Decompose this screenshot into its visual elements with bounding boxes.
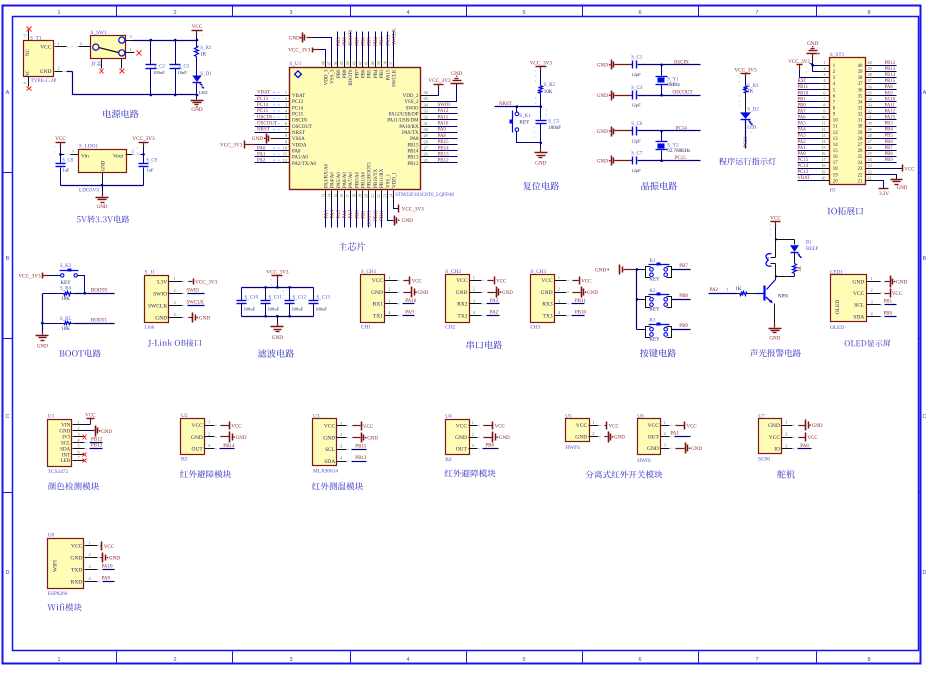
svg-text:1: 1	[174, 276, 176, 281]
svg-text:GND: GND	[40, 69, 52, 75]
svg-text:K3: K3	[649, 319, 656, 324]
svg-text:C: C	[6, 414, 10, 420]
svg-text:GND: GND	[252, 136, 263, 142]
svg-text:10uF: 10uF	[177, 70, 187, 75]
svg-text:PB12: PB12	[438, 159, 450, 164]
svg-text:PB14: PB14	[885, 73, 896, 78]
svg-text:16: 16	[833, 155, 838, 160]
svg-text:3: 3	[78, 431, 80, 436]
svg-text:BOOT1: BOOT1	[368, 210, 373, 227]
svg-text:VCC: VCC	[853, 291, 865, 297]
svg-text:3: 3	[473, 298, 475, 303]
svg-text:43: 43	[352, 61, 356, 65]
svg-text:S_R5: S_R5	[60, 317, 72, 322]
svg-text:3: 3	[289, 657, 292, 663]
svg-text:S_R2: S_R2	[544, 83, 556, 88]
svg-text:PB4: PB4	[885, 128, 894, 133]
svg-text:SWCLK: SWCLK	[392, 28, 397, 46]
svg-text:PA11/USB/DM: PA11/USB/DM	[387, 119, 419, 124]
svg-text:22: 22	[377, 194, 381, 198]
svg-text:1: 1	[871, 276, 873, 281]
svg-text:PA10: PA10	[438, 122, 449, 127]
svg-text:VCC: VCC	[372, 278, 384, 284]
svg-text:37: 37	[868, 78, 872, 83]
svg-text:S_C5: S_C5	[548, 119, 560, 124]
svg-text:GND: GND	[70, 555, 82, 561]
svg-text:VCC: VCC	[85, 413, 96, 418]
svg-text:7: 7	[755, 657, 758, 663]
svg-text:7: 7	[823, 96, 825, 101]
svg-text:2: 2	[173, 10, 176, 16]
svg-text:1K: 1K	[735, 287, 742, 292]
svg-text:3: 3	[871, 299, 873, 304]
svg-text:GND: GND	[535, 161, 546, 167]
svg-text:17: 17	[821, 157, 825, 162]
svg-text:PB11: PB11	[798, 85, 809, 90]
svg-text:1: 1	[57, 10, 60, 16]
svg-text:GND: GND	[597, 129, 608, 135]
svg-text:SWCLK: SWCLK	[186, 301, 204, 306]
svg-text:20: 20	[365, 194, 369, 198]
svg-text:2: 2	[592, 431, 594, 436]
svg-text:8: 8	[823, 102, 825, 107]
svg-text:S_C4: S_C4	[631, 86, 643, 91]
svg-text:PA6/A0: PA6/A0	[343, 172, 348, 188]
svg-text:29: 29	[868, 127, 872, 132]
svg-text:13: 13	[821, 133, 825, 138]
svg-text:PA4/A0: PA4/A0	[331, 172, 336, 188]
svg-text:NRST: NRST	[292, 131, 305, 136]
svg-text:PC14: PC14	[676, 127, 688, 132]
svg-text:BOOT0: BOOT0	[349, 69, 354, 86]
svg-text:1: 1	[592, 420, 594, 425]
svg-text:PB5: PB5	[885, 134, 894, 139]
svg-text:S_CH3: S_CH3	[530, 269, 546, 275]
svg-text:PB8: PB8	[885, 152, 894, 157]
svg-text:GND: GND	[807, 41, 818, 47]
svg-text:PB6: PB6	[362, 37, 367, 46]
svg-text:PA1: PA1	[257, 152, 266, 157]
svg-text:STM32F103C8T6_LQFP48: STM32F103C8T6_LQFP48	[395, 192, 454, 198]
svg-text:PA12: PA12	[885, 109, 896, 114]
svg-text:11: 11	[821, 121, 825, 126]
svg-text:1: 1	[57, 657, 60, 663]
svg-text:S_R4: S_R4	[60, 287, 72, 292]
svg-text:20: 20	[821, 175, 825, 180]
svg-text:VCC_3V3: VCC_3V3	[530, 61, 553, 67]
svg-text:PA5: PA5	[337, 210, 342, 219]
svg-text:2: 2	[208, 431, 210, 436]
svg-text:10K: 10K	[544, 90, 553, 95]
svg-text:PB4: PB4	[374, 37, 379, 46]
svg-text:CH2: CH2	[445, 325, 455, 331]
svg-text:GND: GND	[371, 290, 383, 296]
svg-text:26: 26	[858, 149, 863, 154]
svg-text:S_D1: S_D1	[200, 72, 212, 77]
svg-text:18: 18	[833, 167, 838, 172]
svg-text:OUT: OUT	[191, 447, 203, 453]
svg-text:PB9: PB9	[337, 69, 342, 78]
svg-text:40: 40	[371, 61, 375, 65]
svg-text:15: 15	[821, 145, 825, 150]
svg-text:BEEP: BEEP	[806, 247, 818, 252]
svg-text:TX2: TX2	[457, 313, 467, 319]
svg-text:OUT: OUT	[648, 435, 660, 441]
svg-text:8MHz: 8MHz	[667, 83, 681, 88]
svg-text:23: 23	[383, 194, 387, 198]
svg-text:PB1/A0: PB1/A0	[362, 171, 367, 188]
svg-text:PB3: PB3	[380, 37, 385, 46]
svg-text:OSCIN: OSCIN	[257, 115, 272, 120]
svg-text:RST: RST	[798, 79, 807, 84]
svg-text:2: 2	[558, 287, 560, 292]
svg-text:PB4: PB4	[374, 69, 379, 78]
svg-text:0: 0	[23, 34, 28, 36]
svg-text:C: C	[923, 414, 926, 420]
svg-text:PB14: PB14	[438, 146, 450, 151]
svg-text:46: 46	[334, 61, 338, 65]
svg-text:37: 37	[858, 82, 863, 87]
svg-text:18: 18	[352, 194, 356, 198]
svg-text:GND: GND	[597, 159, 608, 165]
svg-text:VBAT: VBAT	[257, 91, 270, 96]
svg-text:SWIO: SWIO	[406, 106, 419, 111]
svg-text:S_C10: S_C10	[245, 295, 259, 300]
svg-text:SG90: SG90	[758, 457, 770, 463]
svg-text:S_U1: S_U1	[289, 61, 301, 67]
svg-text:3: 3	[664, 443, 666, 448]
svg-text:2: 2	[173, 657, 176, 663]
svg-text:GND: GND	[37, 343, 48, 349]
svg-text:VCC_3V3: VCC_3V3	[402, 207, 425, 213]
svg-text:1K: 1K	[200, 53, 207, 58]
svg-text:1: 1	[388, 275, 390, 280]
svg-text:PC15: PC15	[257, 109, 269, 114]
svg-text:13: 13	[833, 137, 838, 142]
svg-text:VBAT: VBAT	[292, 94, 305, 99]
svg-text:5: 5	[823, 84, 825, 89]
svg-text:PC14: PC14	[257, 103, 269, 108]
svg-text:U5: U5	[565, 413, 572, 419]
svg-text:NRST: NRST	[499, 102, 512, 107]
svg-text:SWIO: SWIO	[186, 289, 199, 294]
svg-text:GND: GND	[191, 435, 203, 441]
svg-text:PB14: PB14	[407, 150, 419, 155]
svg-text:PA1: PA1	[670, 432, 679, 437]
svg-text:PA8: PA8	[800, 444, 809, 449]
svg-text:38: 38	[858, 76, 863, 81]
svg-text:OSCOUT: OSCOUT	[292, 125, 312, 130]
svg-text:9: 9	[823, 109, 825, 114]
svg-text:PA5/A0: PA5/A0	[337, 172, 342, 188]
svg-text:S_K1: S_K1	[519, 114, 531, 119]
svg-text:4: 4	[406, 657, 409, 663]
svg-text:VCC: VCC	[104, 544, 115, 550]
svg-text:36: 36	[858, 88, 863, 93]
svg-text:Vout: Vout	[113, 153, 124, 159]
svg-text:PA2: PA2	[798, 140, 807, 145]
svg-text:GND: GND	[597, 63, 608, 69]
svg-text:39: 39	[377, 61, 381, 65]
svg-text:PB10: PB10	[575, 311, 587, 316]
svg-text:12: 12	[821, 127, 825, 132]
svg-text:GND: GND	[272, 335, 283, 341]
svg-text:15: 15	[334, 194, 338, 198]
svg-text:37: 37	[389, 61, 393, 65]
svg-text:Vin: Vin	[81, 153, 89, 159]
svg-text:10K: 10K	[61, 327, 70, 332]
svg-text:TYPE-C-2P: TYPE-C-2P	[31, 78, 57, 84]
svg-text:3: 3	[289, 10, 292, 16]
svg-text:SWCLK: SWCLK	[148, 303, 167, 309]
svg-text:VSS_3: VSS_3	[331, 69, 336, 84]
svg-text:LED: LED	[60, 459, 70, 464]
svg-text:PA4: PA4	[331, 210, 336, 219]
svg-text:GND: GND	[769, 337, 780, 342]
svg-text:9: 9	[285, 139, 287, 144]
svg-text:PB8: PB8	[679, 294, 688, 299]
svg-text:PA15: PA15	[885, 116, 896, 121]
svg-text:VCC: VCC	[904, 167, 915, 172]
svg-text:S_R1: S_R1	[200, 46, 212, 51]
svg-text:U6: U6	[637, 413, 644, 419]
svg-text:26: 26	[868, 145, 872, 150]
svg-text:6: 6	[78, 449, 80, 454]
svg-text:GND: GND	[59, 430, 70, 435]
svg-text:PA9: PA9	[102, 577, 111, 582]
svg-text:PC13: PC13	[798, 170, 809, 175]
svg-text:SCL: SCL	[325, 447, 336, 453]
svg-text:3: 3	[726, 287, 728, 292]
svg-text:GND: GND	[768, 423, 780, 429]
svg-text:2: 2	[78, 426, 80, 431]
svg-text:VCC_3V3: VCC_3V3	[18, 274, 41, 280]
svg-text:PA10: PA10	[405, 299, 416, 304]
svg-text:27: 27	[858, 143, 863, 148]
svg-text:1: 1	[472, 420, 474, 425]
svg-text:LDO3V3: LDO3V3	[79, 188, 99, 194]
svg-text:3: 3	[823, 72, 825, 77]
svg-text:PA11: PA11	[885, 103, 896, 108]
svg-text:100uF: 100uF	[243, 307, 255, 312]
svg-text:3: 3	[174, 300, 176, 305]
svg-text:22: 22	[868, 169, 872, 174]
svg-text:VCC: VCC	[581, 279, 592, 284]
svg-text:GND: GND	[402, 218, 413, 224]
svg-text:PC13: PC13	[744, 136, 749, 148]
svg-text:OLED: OLED	[835, 300, 841, 315]
svg-text:PA0: PA0	[292, 150, 301, 155]
svg-text:3.3V: 3.3V	[156, 279, 167, 285]
svg-text:NC: NC	[26, 49, 31, 56]
svg-text:13: 13	[321, 194, 325, 198]
svg-text:PA2: PA2	[710, 288, 719, 293]
svg-text:47: 47	[328, 61, 332, 65]
svg-text:27: 27	[868, 139, 872, 144]
svg-text:PA2: PA2	[257, 159, 266, 164]
svg-text:PB15: PB15	[355, 444, 367, 449]
svg-text:S_Y1: S_Y1	[667, 78, 679, 83]
svg-text:8: 8	[285, 133, 287, 138]
svg-text:12pF: 12pF	[631, 168, 641, 173]
svg-text:PB5: PB5	[368, 37, 373, 46]
svg-text:PB9: PB9	[885, 158, 894, 163]
svg-text:24: 24	[389, 194, 393, 198]
svg-text:TX1: TX1	[373, 313, 383, 319]
svg-text:1: 1	[664, 420, 666, 425]
svg-text:OUT: OUT	[456, 447, 468, 453]
svg-text:32: 32	[858, 113, 863, 118]
svg-text:KEY: KEY	[649, 308, 660, 313]
svg-text:PB8: PB8	[343, 69, 348, 78]
svg-text:25: 25	[868, 151, 872, 156]
svg-text:39: 39	[858, 70, 863, 75]
svg-text:B: B	[6, 256, 10, 262]
svg-text:14: 14	[328, 194, 332, 198]
svg-text:VCC: VCC	[496, 279, 507, 284]
svg-text:BOOT1: BOOT1	[91, 318, 108, 323]
svg-text:33: 33	[858, 106, 863, 111]
svg-text:S_Y2: S_Y2	[667, 143, 679, 148]
svg-text:PB13: PB13	[91, 444, 103, 449]
svg-text:PB15: PB15	[885, 79, 896, 84]
svg-text:BOOT0: BOOT0	[349, 29, 354, 46]
svg-text:U8: U8	[48, 532, 55, 538]
svg-text:PB11/RX: PB11/RX	[380, 168, 385, 188]
svg-text:8: 8	[867, 10, 870, 16]
svg-text:1: 1	[89, 540, 91, 545]
svg-text:33: 33	[868, 102, 872, 107]
svg-text:VDD_3: VDD_3	[324, 69, 329, 85]
svg-text:VCC_3V3: VCC_3V3	[220, 142, 243, 148]
svg-text:44: 44	[346, 61, 350, 65]
svg-text:2: 2	[871, 288, 873, 293]
svg-text:S_C8: S_C8	[62, 158, 73, 163]
svg-text:15: 15	[833, 149, 838, 154]
svg-text:PB15: PB15	[438, 140, 450, 145]
svg-text:D: D	[923, 570, 926, 576]
svg-text:VCC: VCC	[609, 424, 620, 429]
svg-text:BOOT0: BOOT0	[91, 288, 108, 293]
svg-text:2: 2	[664, 431, 666, 436]
svg-text:PA8: PA8	[410, 137, 419, 142]
svg-text:PB13: PB13	[438, 152, 450, 157]
svg-text:PC13: PC13	[257, 97, 269, 102]
svg-text:PA10: PA10	[885, 97, 896, 102]
svg-text:PA7/A0: PA7/A0	[349, 172, 354, 188]
svg-text:VCC_3V3: VCC_3V3	[288, 48, 311, 54]
svg-text:3: 3	[558, 298, 560, 303]
svg-text:HWIS: HWIS	[637, 458, 651, 464]
svg-text:S_C6: S_C6	[631, 122, 643, 127]
svg-text:PB9: PB9	[679, 324, 688, 329]
svg-text:GND: GND	[896, 279, 907, 285]
svg-text:PA7: PA7	[798, 109, 807, 114]
svg-text:10K: 10K	[61, 297, 70, 302]
svg-text:OSCIN: OSCIN	[292, 119, 307, 124]
svg-text:VSSA: VSSA	[292, 137, 305, 142]
svg-text:VCC_3V3: VCC_3V3	[734, 68, 757, 74]
svg-text:GND: GND	[647, 446, 659, 452]
svg-text:PB9: PB9	[337, 37, 342, 46]
svg-text:PA15: PA15	[386, 34, 391, 45]
svg-text:21: 21	[868, 175, 872, 180]
svg-text:VCC: VCC	[770, 215, 781, 221]
svg-text:PB0: PB0	[355, 210, 360, 219]
svg-text:38: 38	[868, 72, 872, 77]
svg-text:3: 3	[130, 34, 132, 39]
svg-text:GND: GND	[102, 160, 107, 171]
svg-text:3: 3	[388, 298, 390, 303]
svg-text:KEY: KEY	[519, 120, 530, 125]
svg-text:1: 1	[208, 420, 210, 425]
svg-text:18: 18	[821, 163, 825, 168]
svg-text:VCC_3V3: VCC_3V3	[428, 78, 451, 84]
svg-text:GND: GND	[614, 436, 625, 441]
svg-text:1uF: 1uF	[62, 167, 70, 172]
svg-text:GND: GND	[541, 290, 553, 296]
svg-text:28: 28	[424, 139, 428, 144]
svg-text:14: 14	[833, 143, 838, 148]
svg-text:PB12: PB12	[885, 61, 896, 66]
svg-text:PA5: PA5	[798, 122, 807, 127]
svg-text:PB6: PB6	[885, 140, 894, 145]
svg-text:34: 34	[858, 100, 863, 105]
svg-text:D: D	[6, 570, 10, 576]
svg-text:2: 2	[80, 41, 82, 46]
svg-text:2: 2	[388, 287, 390, 292]
svg-text:10: 10	[833, 119, 838, 124]
svg-text:19: 19	[833, 173, 838, 178]
svg-text:PA3: PA3	[324, 210, 329, 219]
svg-text:19: 19	[821, 169, 825, 174]
svg-text:GND: GND	[289, 35, 300, 41]
svg-text:1K: 1K	[798, 266, 803, 272]
svg-text:PB1: PB1	[884, 300, 893, 305]
svg-text:PA1: PA1	[798, 146, 807, 151]
svg-text:PA9: PA9	[885, 91, 894, 96]
svg-text:PA6: PA6	[798, 116, 807, 121]
svg-text:RX3: RX3	[542, 302, 553, 308]
svg-text:PB11: PB11	[380, 210, 385, 221]
svg-text:S_C13: S_C13	[316, 295, 330, 300]
svg-text:VCC: VCC	[231, 424, 242, 429]
svg-text:Link: Link	[145, 325, 155, 331]
svg-text:VCC: VCC	[648, 423, 660, 429]
svg-text:NRST: NRST	[257, 128, 270, 133]
svg-text:33: 33	[424, 108, 428, 113]
svg-text:1: 1	[285, 90, 287, 95]
svg-text:16: 16	[340, 194, 344, 198]
svg-text:S_C2: S_C2	[154, 64, 166, 69]
svg-text:U7: U7	[758, 413, 765, 419]
svg-text:1: 1	[78, 420, 80, 425]
svg-text:2: 2	[472, 432, 474, 437]
svg-text:S_C7: S_C7	[631, 152, 643, 157]
svg-text:PA2: PA2	[490, 311, 499, 316]
svg-text:PA12: PA12	[438, 109, 449, 114]
svg-text:21: 21	[371, 194, 375, 198]
svg-text:S_R3: S_R3	[747, 84, 759, 89]
svg-text:PB6: PB6	[485, 444, 494, 449]
svg-text:1: 1	[785, 420, 787, 425]
svg-text:S_C3: S_C3	[178, 64, 190, 69]
svg-text:K1: K1	[649, 259, 656, 264]
svg-text:PA8: PA8	[885, 85, 894, 90]
svg-text:GND: GND	[97, 205, 108, 210]
svg-text:VBAT: VBAT	[798, 176, 811, 181]
svg-text:PB10: PB10	[374, 210, 379, 222]
